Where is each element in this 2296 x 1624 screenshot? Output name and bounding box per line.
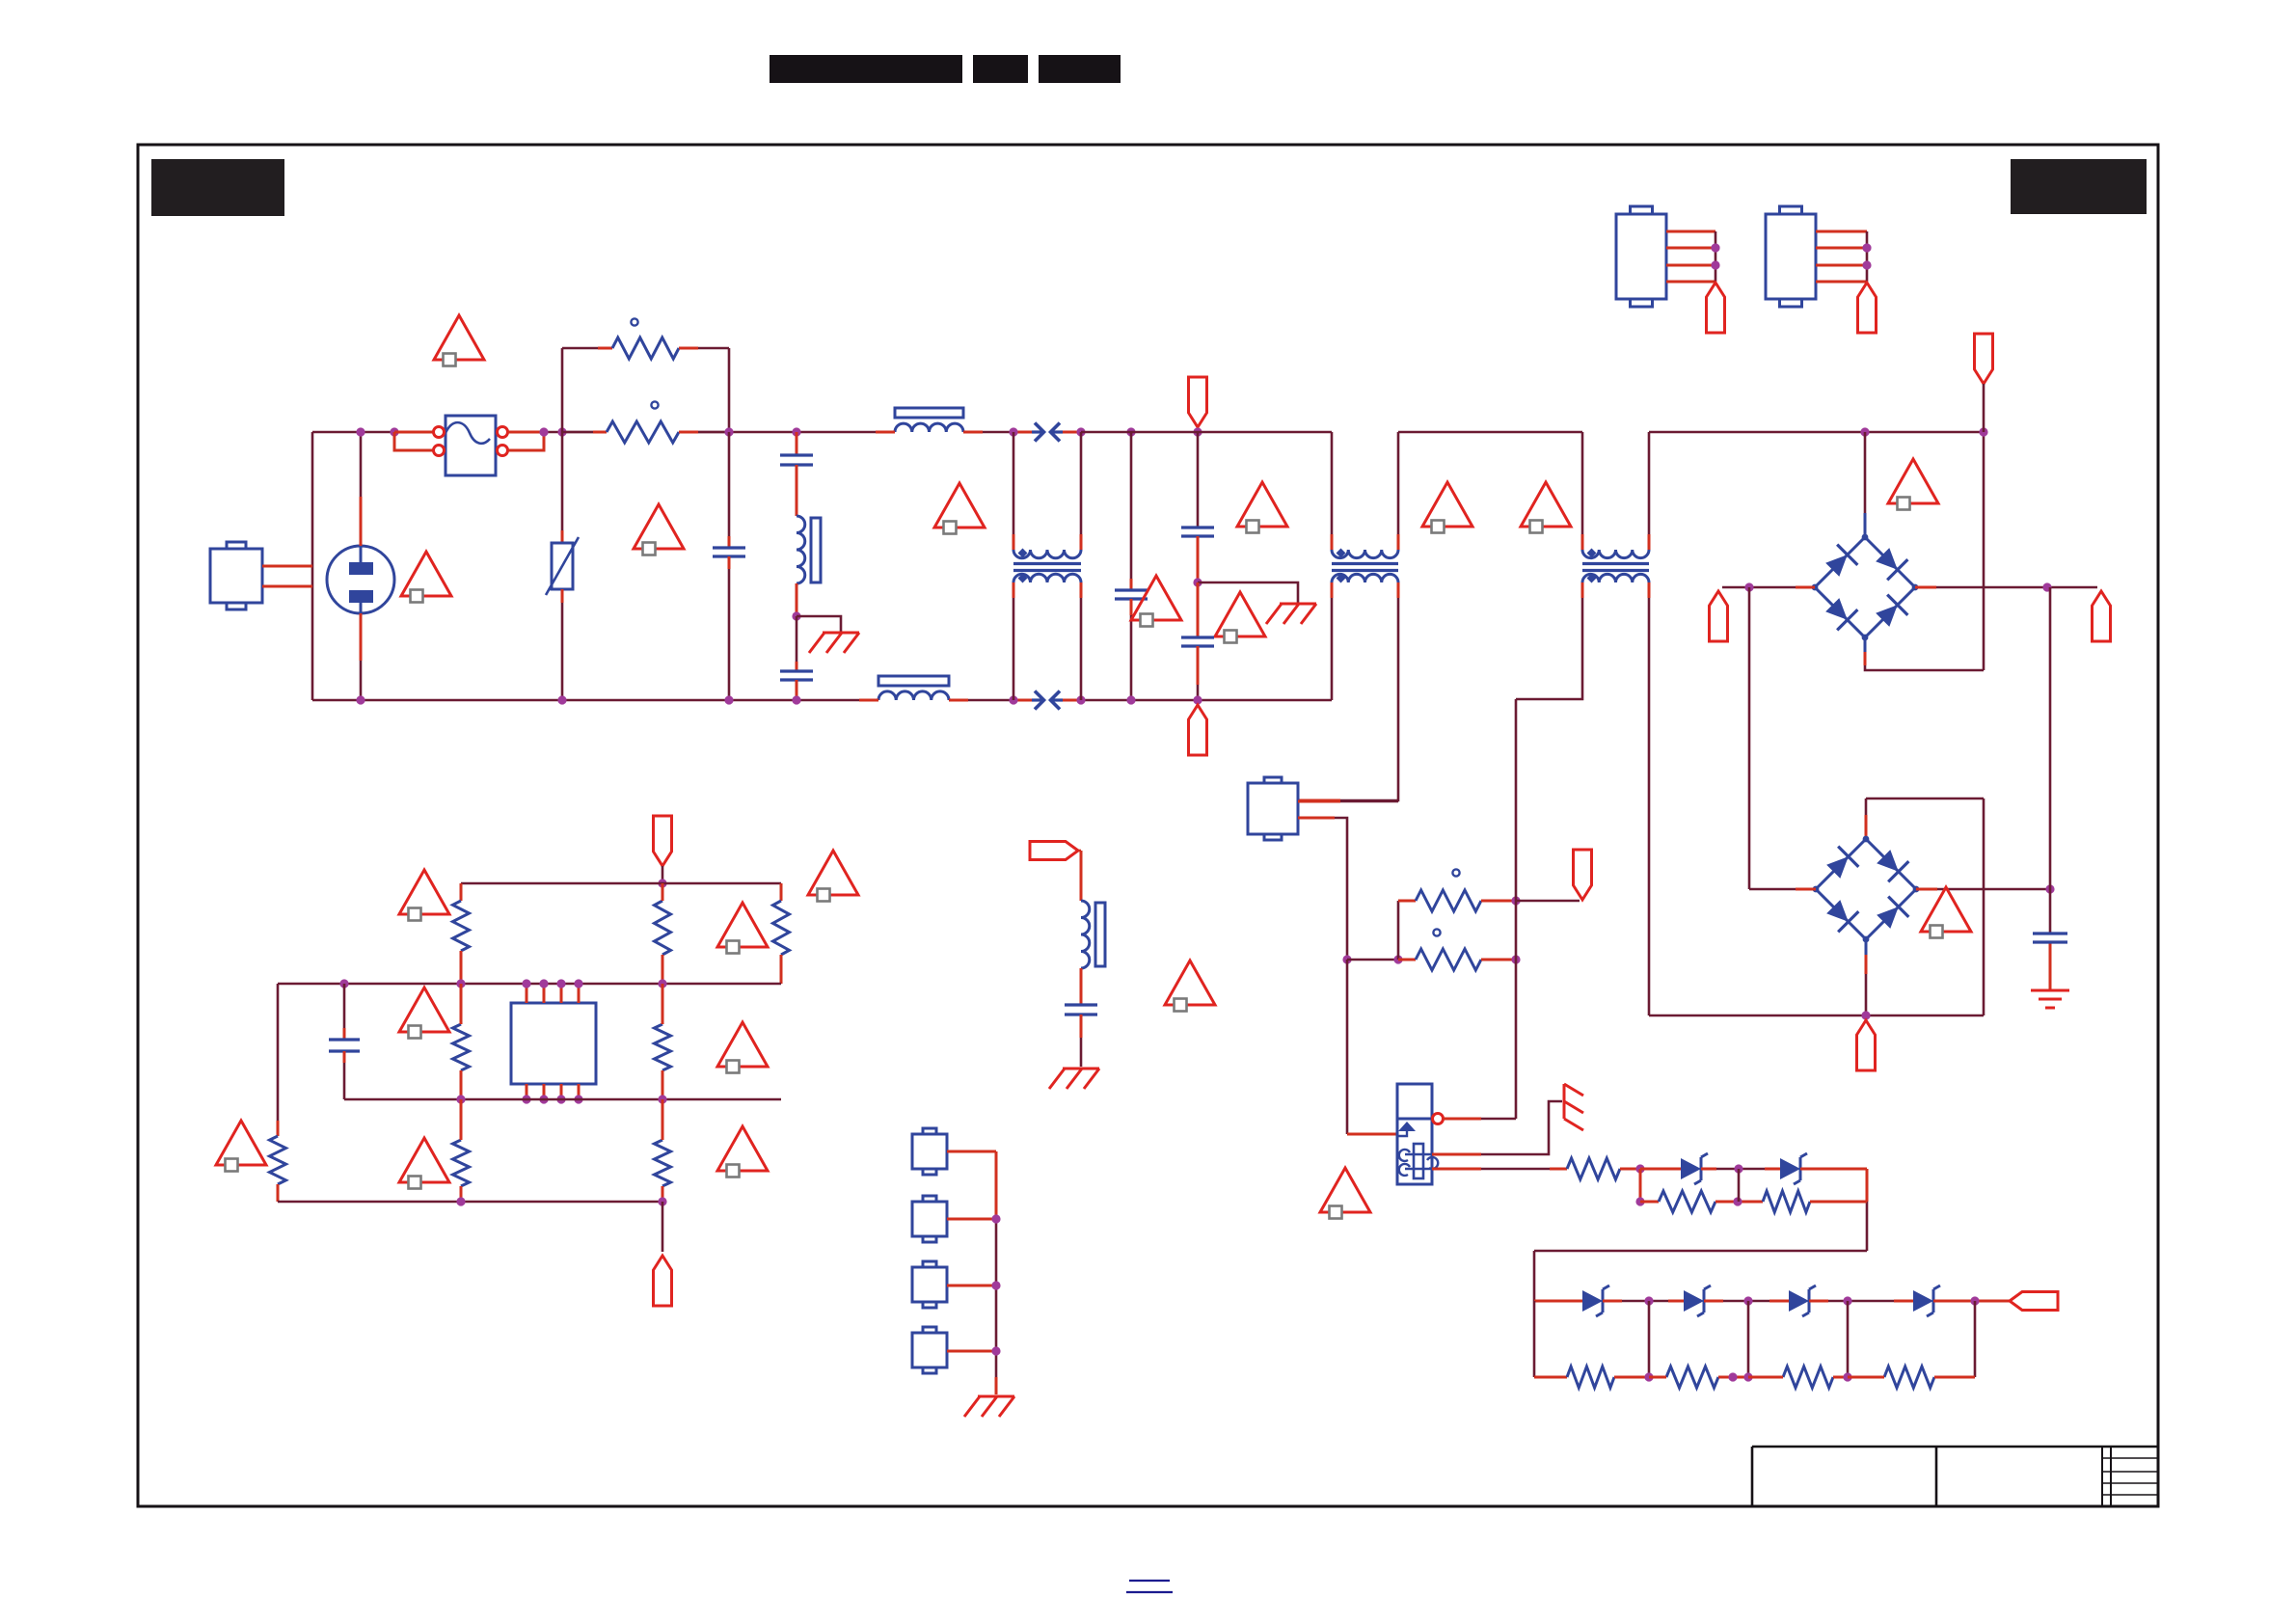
junction mid rail c <box>658 979 666 988</box>
wire T2 top-left vertical <box>1331 432 1334 550</box>
warning triangle IC tl <box>399 870 449 921</box>
wire bridge1 bottom path <box>1865 637 1984 670</box>
wire ladder mid vertical left <box>1639 1169 1642 1202</box>
wire C1 upper lead <box>728 432 731 548</box>
wire opto mid pin <box>1432 1101 1562 1154</box>
wire R4 right lead <box>1481 959 1516 961</box>
junction lower rail b <box>658 1095 666 1103</box>
wire CN3 pin1 <box>1298 800 1398 803</box>
wire top bus segment T2 to T3 <box>1398 431 1582 434</box>
resistor Rl1 <box>270 1136 286 1184</box>
wire C4 upper lead <box>1130 432 1133 590</box>
warning triangle between T2 T3 right <box>1521 482 1571 533</box>
title redaction bar 2 <box>973 55 1028 83</box>
wire Rz4 leads <box>1848 1376 1975 1379</box>
wire ladder mid vertical <box>1738 1169 1741 1202</box>
connector CN3 <box>1248 777 1298 840</box>
wire flag VCC lead <box>1516 900 1580 903</box>
capacitor C8 <box>329 1040 360 1051</box>
net flag bridge1 left <box>1710 591 1728 641</box>
wire left col vertical <box>277 984 280 1136</box>
fuse pin ring top-right <box>498 427 508 438</box>
wire opto top pin <box>1444 1118 1516 1121</box>
title redaction bar 3 <box>1039 55 1121 83</box>
wire CN4 pin bus <box>1666 231 1715 282</box>
junction bus bridge1 <box>1860 427 1869 436</box>
junction R3R4 left <box>1393 955 1402 963</box>
wire Ra left lead <box>1640 1201 1659 1204</box>
net flag output left-pointing <box>2010 1292 2058 1311</box>
net flag CN5 <box>1858 283 1877 333</box>
wire zener col4 vertical <box>1847 1301 1850 1377</box>
wire horizontal to bridge2 area <box>1649 1015 1984 1017</box>
junction top rail <box>658 879 666 887</box>
warning triangle IC bl <box>399 1138 449 1189</box>
warning triangle near fuse <box>434 315 484 366</box>
wire CN3 pin2 <box>1298 818 1347 960</box>
net flag above x2057 <box>1975 334 1993 384</box>
junction plug top <box>356 427 365 436</box>
junction bridge2 bottom <box>1861 1011 1870 1019</box>
zener D1 <box>1681 1153 1708 1184</box>
inductor L2 core bar <box>895 408 963 418</box>
wire IC lower rail <box>344 1098 781 1101</box>
junction Rz3 right <box>1843 1372 1851 1381</box>
junction C2 top <box>792 427 800 436</box>
junction L1 bottom <box>792 611 800 620</box>
junction mid rail a <box>339 979 348 988</box>
wire J1 lead <box>947 1150 996 1153</box>
wire R2 right lead <box>679 431 729 434</box>
junction header c <box>991 1346 1000 1355</box>
resistor Rz3 <box>1783 1367 1833 1388</box>
wire Rz1 left lead <box>1534 1376 1567 1379</box>
wire IC mid rail <box>278 983 781 986</box>
wire bridge1 left lead <box>1722 586 1815 589</box>
zener Z3 <box>1789 1286 1816 1316</box>
capacitor C7 smoothing <box>2033 934 2067 942</box>
wire bridge2 top path <box>1866 798 1984 839</box>
inductor L1 with core bar <box>797 516 821 583</box>
wire Z1 left lead <box>1534 1300 1582 1303</box>
junction Z1 Z2 <box>1644 1296 1653 1305</box>
wire IC bottom rail <box>278 1201 662 1204</box>
wire to bottom flag <box>662 1202 664 1252</box>
fuse pin ring bottom-right <box>498 446 508 456</box>
inductor L3 core bar <box>878 676 949 686</box>
wire C2 upper lead <box>796 432 798 455</box>
warning triangle mid <box>1165 961 1215 1012</box>
junction header a <box>991 1214 1000 1223</box>
junction x1242 top <box>1193 427 1202 436</box>
wire Ra to Rb <box>1715 1201 1763 1204</box>
wire J4 lead <box>947 1350 996 1353</box>
warning triangle IC left <box>216 1121 266 1172</box>
warning triangle bridge1 <box>1888 459 1938 510</box>
wire C2 to L1 <box>796 465 798 516</box>
junction bridge2 right <box>2045 884 2054 893</box>
thermistor R3 marker <box>1452 869 1459 876</box>
resistor Rm2 <box>655 1024 671 1070</box>
wire pin2 vertical lower <box>1347 960 1397 1134</box>
wire flag to L4 <box>1078 851 1081 901</box>
resistor Rz2 <box>1666 1367 1718 1388</box>
wire ground tap <box>797 616 841 632</box>
wire cap branch lower <box>343 1051 346 1099</box>
inductor L2 winding <box>895 423 963 432</box>
wire fuse upper right lead <box>508 431 544 434</box>
wire choke top-left vertical <box>1013 432 1015 550</box>
junction Z4 right <box>1970 1296 1979 1305</box>
wire C4 lower lead <box>1130 599 1133 700</box>
wire flag to bus <box>1197 427 1200 432</box>
wire Rm1 leads <box>460 984 463 1099</box>
wire zener col3 vertical <box>1747 1301 1750 1377</box>
wire bridge1-2 left vertical <box>1749 587 1816 889</box>
resistor Rb <box>1763 1191 1810 1212</box>
junction choke bottom-left <box>1009 695 1017 704</box>
IC U1 pins <box>527 984 579 1099</box>
wire top bus segment T3 to bridge <box>1649 431 1984 434</box>
junction lower rail a <box>456 1095 465 1103</box>
junction choke bottom-right <box>1076 695 1085 704</box>
wire top bus gap stubs <box>1013 431 1081 434</box>
wire R3 right lead <box>1481 900 1516 903</box>
inductor L4 with core bar <box>1081 901 1105 968</box>
wire Rz3 leads <box>1748 1376 1848 1379</box>
wire varistor upper lead <box>561 432 564 543</box>
wire T3 bottom-left jog <box>1516 582 1582 699</box>
wire J3 lead <box>947 1285 996 1287</box>
junction R2 right / C branch <box>724 427 733 436</box>
wire L1 to junction <box>796 583 798 616</box>
warning triangle IC r3 <box>717 1126 768 1177</box>
junction fuse left <box>390 427 398 436</box>
wire T2 top-right vertical <box>1397 432 1400 550</box>
junction varistor top <box>557 427 566 436</box>
net flag CN4 <box>1707 283 1725 333</box>
net flag above IC area <box>654 816 672 866</box>
wire junction to C3 <box>796 616 798 671</box>
wire R2 left lead <box>562 431 607 434</box>
wire flag lead x2057 <box>1983 384 1985 432</box>
wire D1 left lead <box>1640 1168 1681 1171</box>
footer link line 2 <box>1126 1591 1173 1593</box>
net flag horizontal mid <box>1030 842 1078 860</box>
chassis ground G2 <box>1266 604 1316 624</box>
junction C4 bottom <box>1126 695 1135 704</box>
opto pin ring <box>1433 1114 1444 1124</box>
thermistor R1 marker circle <box>631 318 637 325</box>
junction plug bottom <box>356 695 365 704</box>
junction choke top-right <box>1076 427 1085 436</box>
wire header common vertical <box>995 1151 998 1394</box>
connector J1 <box>912 1128 947 1175</box>
warning triangle IC r1 <box>717 903 768 954</box>
junction CN4 b <box>1711 260 1719 269</box>
wire choke bottom-right vertical <box>1080 582 1083 700</box>
junction CN5 b <box>1862 260 1871 269</box>
wire Z2 to Z3 <box>1704 1300 1789 1303</box>
wire T2 bottom-left vertical <box>1331 582 1334 700</box>
warning triangle below opto <box>1320 1168 1370 1219</box>
wire C5 upper lead <box>1197 432 1200 528</box>
wire Rb1 leads <box>460 1099 463 1202</box>
wire IC top rail <box>461 882 781 885</box>
wire Rt2 leads <box>662 883 664 984</box>
junction Z2 Z3 <box>1743 1296 1752 1305</box>
junction C4 top <box>1126 427 1135 436</box>
wire riser x2057 lower <box>1983 798 1985 1015</box>
wire ladder return horizontal <box>1534 1250 1867 1253</box>
junction Rz1 right <box>1644 1372 1653 1381</box>
wire bottom AC bus right <box>1081 699 1332 702</box>
transformer T3 <box>1582 549 1649 583</box>
capacitor C5 <box>1181 528 1214 536</box>
bridge rectifier BR1 <box>1812 534 1919 641</box>
wire T3 top-right vertical <box>1648 432 1651 550</box>
wire flag to top rail <box>662 866 664 883</box>
capacitor C6 <box>1181 637 1214 646</box>
wire R3 left lead <box>1398 901 1416 960</box>
thermistor R2 marker circle <box>651 401 658 408</box>
chassis ground G1 <box>809 633 859 653</box>
capacitor C9 <box>1065 1005 1097 1015</box>
junction Rz2 right a <box>1728 1372 1737 1381</box>
wire R5 to D1 <box>1620 1168 1636 1171</box>
connector J2 <box>912 1196 947 1242</box>
plug P1 appliance inlet symbol <box>327 546 394 613</box>
wire Rl1 bottom lead <box>277 1184 280 1202</box>
warning triangle IC r2 <box>717 1022 768 1073</box>
thermistor R2 (on bus) <box>607 421 679 443</box>
wire L3 left stub <box>859 699 878 702</box>
wire L2 left stub <box>876 431 895 434</box>
wire left AC loop vertical <box>311 432 314 700</box>
wire R3 R4 left common <box>1347 959 1398 961</box>
wire T2 bottom-right to CN3 <box>1298 582 1398 800</box>
wire zener col2 vertical <box>1648 1301 1651 1377</box>
connector CN1 AC inlet <box>210 542 262 609</box>
title redaction bar 1 <box>770 55 962 83</box>
wire Rz1 right lead <box>1614 1376 1649 1379</box>
net flag AC_L above bus <box>1189 377 1207 427</box>
junction Ra Rb <box>1733 1197 1742 1205</box>
chassis ground G5 <box>1049 1069 1099 1089</box>
junction x1242 bottom <box>1193 695 1202 704</box>
junction varistor bottom <box>557 695 566 704</box>
wire bottom AC bus left <box>312 699 1013 702</box>
resistor Rm1 <box>453 1024 470 1070</box>
junction Ra left <box>1635 1197 1644 1205</box>
wire ladder return vertical <box>1533 1251 1536 1301</box>
wire Rm2 leads <box>662 984 664 1099</box>
optocoupler U2 <box>1397 1084 1438 1184</box>
zener Z2 <box>1684 1286 1711 1316</box>
wire C5 to junction <box>1197 536 1200 582</box>
junction CN4 a <box>1711 243 1719 252</box>
capacitor C1 X-cap <box>713 548 745 556</box>
wire C3 lower lead <box>796 680 798 700</box>
wire bridge2 bottom lead <box>1865 939 1868 1015</box>
wire top AC bus left segment <box>312 431 1013 434</box>
page label box top-left <box>151 159 284 216</box>
earth ground G4 <box>2031 990 2069 1008</box>
wire D2 right lead <box>1800 1168 1867 1171</box>
wire L2 right stub <box>963 431 983 434</box>
wire fuse lower left lead <box>394 432 434 450</box>
wire fuse lower right lead <box>508 432 544 450</box>
connector CN4 <box>1616 206 1666 307</box>
zener Z4 <box>1913 1286 1940 1316</box>
net flag below IC area <box>654 1256 672 1306</box>
wire opto low pin <box>1432 1168 1567 1171</box>
wire C9 to ground <box>1080 1015 1083 1067</box>
IC U1 box <box>511 1003 596 1084</box>
wire NTC loop left vertical <box>561 348 564 432</box>
junction bridge1 right <box>2042 582 2051 591</box>
warning triangle right of flag <box>1237 482 1287 533</box>
net flag bridge1 right <box>2093 591 2111 641</box>
wire NTC loop top-left lead <box>562 347 612 350</box>
warning triangle near C4 <box>1131 576 1181 627</box>
wire C6 upper lead <box>1197 582 1200 637</box>
wire Rt3 top lead <box>780 883 783 901</box>
junction fuse right <box>539 427 548 436</box>
wire CN1 pin2 to loop <box>262 585 312 588</box>
wire Rb2 leads <box>662 1099 664 1202</box>
net flag above R3 <box>1574 850 1592 900</box>
wire R4 left lead <box>1398 959 1416 961</box>
junction D1 D2 node <box>1734 1164 1742 1173</box>
title block table <box>1752 1447 2158 1506</box>
junction IC pin dots bottom <box>522 1095 582 1103</box>
zener Z1 <box>1582 1286 1609 1316</box>
junction IC pin dots top <box>522 979 582 988</box>
connector J3 <box>912 1261 947 1308</box>
junction header b <box>991 1281 1000 1289</box>
junction Z3 Z4 <box>1843 1296 1851 1305</box>
connector CN5 <box>1766 206 1816 307</box>
wire J2 lead <box>947 1218 996 1221</box>
junction bridge1 left <box>1744 582 1753 591</box>
capacitor C2 <box>780 455 813 465</box>
inductor L3 winding <box>878 691 949 700</box>
junction R4 right <box>1511 955 1520 963</box>
wire bridge2 right lead <box>1916 888 2050 891</box>
junction mid rail b <box>456 979 465 988</box>
chassis ground G6 <box>964 1396 1014 1417</box>
resistor Rz1 <box>1567 1367 1614 1388</box>
spark gap SG1 top bus <box>1032 423 1063 442</box>
fuse F1 interference filter box <box>446 416 496 475</box>
fuse pin ring bottom-left <box>434 446 445 456</box>
junction bottom rail a <box>456 1197 465 1205</box>
warning triangle near plug <box>401 552 451 603</box>
wire plug bottom to bus <box>360 613 363 700</box>
wire NTC loop top-right lead <box>679 348 729 432</box>
wire L4 to C9 <box>1080 968 1083 1005</box>
wire riser x2057 upper <box>1983 432 1985 670</box>
net flag AC_N below bus <box>1189 705 1207 755</box>
connector J4 <box>912 1327 947 1373</box>
junction bus x2057 <box>1979 427 1987 436</box>
junction R3 right <box>1511 896 1520 905</box>
resistor R5 <box>1567 1158 1620 1179</box>
junction C3 bottom <box>792 695 800 704</box>
wire sense vertical x1572 <box>1515 699 1518 1119</box>
wire smoothing cap vertical <box>2049 587 2052 934</box>
wire bridge1 top lead <box>1864 432 1867 537</box>
wire Z1 to Z2 <box>1603 1300 1684 1303</box>
wire CN5 pin bus <box>1816 231 1867 282</box>
wire cap branch upper <box>343 984 346 1040</box>
junction bottom rail b <box>658 1197 666 1205</box>
wire fuse upper left lead <box>394 431 434 434</box>
resistor Rz4 <box>1884 1367 1934 1388</box>
thermistor R4 marker <box>1433 929 1440 935</box>
wire ground tap 2 <box>1198 582 1298 603</box>
resistor R3 (top) <box>1416 890 1481 911</box>
wire Rt3 bottom lead <box>780 955 783 984</box>
resistor Ra <box>1659 1191 1715 1212</box>
resistor Rb2 <box>655 1140 671 1186</box>
warning triangle IC ml <box>399 988 449 1039</box>
wire T3 bottom-right long vertical <box>1648 582 1651 1015</box>
warning triangle below NTC <box>634 504 684 555</box>
zener D2 <box>1780 1153 1807 1184</box>
resistor Rb1 <box>453 1140 470 1186</box>
warning triangle near C6 <box>1215 592 1265 643</box>
wire D1 to D2 <box>1701 1168 1780 1171</box>
capacitor C4 Y-cap <box>1115 590 1148 599</box>
wire Z3 to Z4 <box>1809 1300 1913 1303</box>
junction choke top-left <box>1009 427 1017 436</box>
bridge rectifier BR2 <box>1813 836 1920 943</box>
thermistor R1 (top) <box>612 338 679 359</box>
wire C1 lower lead <box>728 556 731 700</box>
resistor Rt3 <box>773 901 790 955</box>
wire bottom gap stubs <box>1013 699 1081 702</box>
warning triangle IC tr <box>808 851 858 902</box>
wire Rz2 leads <box>1649 1376 1748 1379</box>
net flag below bridge2 <box>1857 1020 1876 1070</box>
fuse pin ring top-left <box>434 427 445 438</box>
wire L3 right stub <box>949 699 968 702</box>
resistor Rt1 <box>453 901 470 951</box>
wire Rb right lead <box>1810 1201 1867 1204</box>
junction C1 bottom <box>724 695 733 704</box>
warning triangle above L2 <box>934 483 985 534</box>
spark gap SG2 bottom bus <box>1032 691 1063 710</box>
wire T3 top-left vertical <box>1581 432 1584 550</box>
transformer T2 <box>1332 549 1398 583</box>
schematic border frame <box>138 145 2158 1506</box>
wire varistor lower lead <box>561 589 564 700</box>
capacitor C3 <box>780 671 813 680</box>
wire plug top to bus <box>360 432 363 546</box>
wire CN1 pin1 to loop <box>262 565 312 568</box>
chassis ground G3 <box>1564 1084 1583 1130</box>
page label box top-right <box>2011 159 2147 214</box>
resistor R4 (bottom) <box>1416 949 1481 970</box>
junction Rz2 right b <box>1743 1372 1752 1381</box>
resistor Rt2 <box>655 901 671 955</box>
wire Rt1 top lead <box>460 883 463 901</box>
junction CN3 branch <box>1342 955 1351 963</box>
junction mid x1242 <box>1193 578 1202 586</box>
wire cap to ground <box>2049 942 2052 989</box>
